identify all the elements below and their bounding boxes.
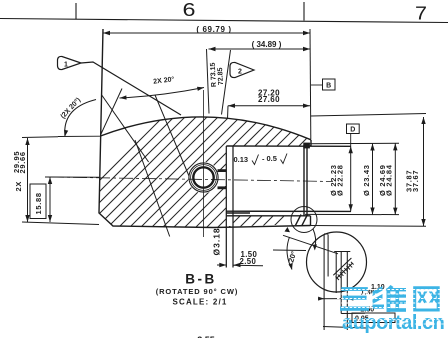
svg-text:Ø3.18: Ø3.18	[212, 227, 222, 255]
svg-text:D: D	[350, 127, 355, 134]
svg-text:15.88: 15.88	[34, 192, 43, 214]
svg-text:0.13: 0.13	[234, 155, 249, 164]
svg-text:6: 6	[183, 0, 196, 20]
svg-text:SCALE: 2/1: SCALE: 2/1	[172, 298, 227, 307]
svg-text:2.50: 2.50	[240, 257, 257, 266]
svg-text:27.60: 27.60	[258, 95, 280, 104]
svg-text:0.5: 0.5	[267, 154, 277, 163]
svg-text:29.66: 29.66	[18, 151, 27, 173]
svg-text:B: B	[326, 83, 331, 90]
svg-text:B-B: B-B	[185, 272, 217, 287]
svg-text:1: 1	[64, 62, 68, 69]
svg-text:7: 7	[415, 4, 427, 24]
svg-text:Ø 23.43: Ø 23.43	[362, 164, 371, 196]
svg-text:( 69.79 ): ( 69.79 )	[196, 25, 231, 34]
svg-text:2X: 2X	[14, 181, 23, 192]
svg-text:72.85: 72.85	[217, 67, 225, 85]
svg-text:37.67: 37.67	[411, 170, 420, 192]
svg-text:auportal.cn: auportal.cn	[342, 312, 444, 334]
svg-text:( 34.89 ): ( 34.89 )	[252, 40, 282, 49]
svg-text:2: 2	[238, 69, 242, 76]
svg-text:(ROTATED 90° CW): (ROTATED 90° CW)	[156, 287, 239, 296]
svg-text:Ø 22.28: Ø 22.28	[336, 164, 345, 196]
svg-text:Ø 24.84: Ø 24.84	[385, 164, 394, 196]
